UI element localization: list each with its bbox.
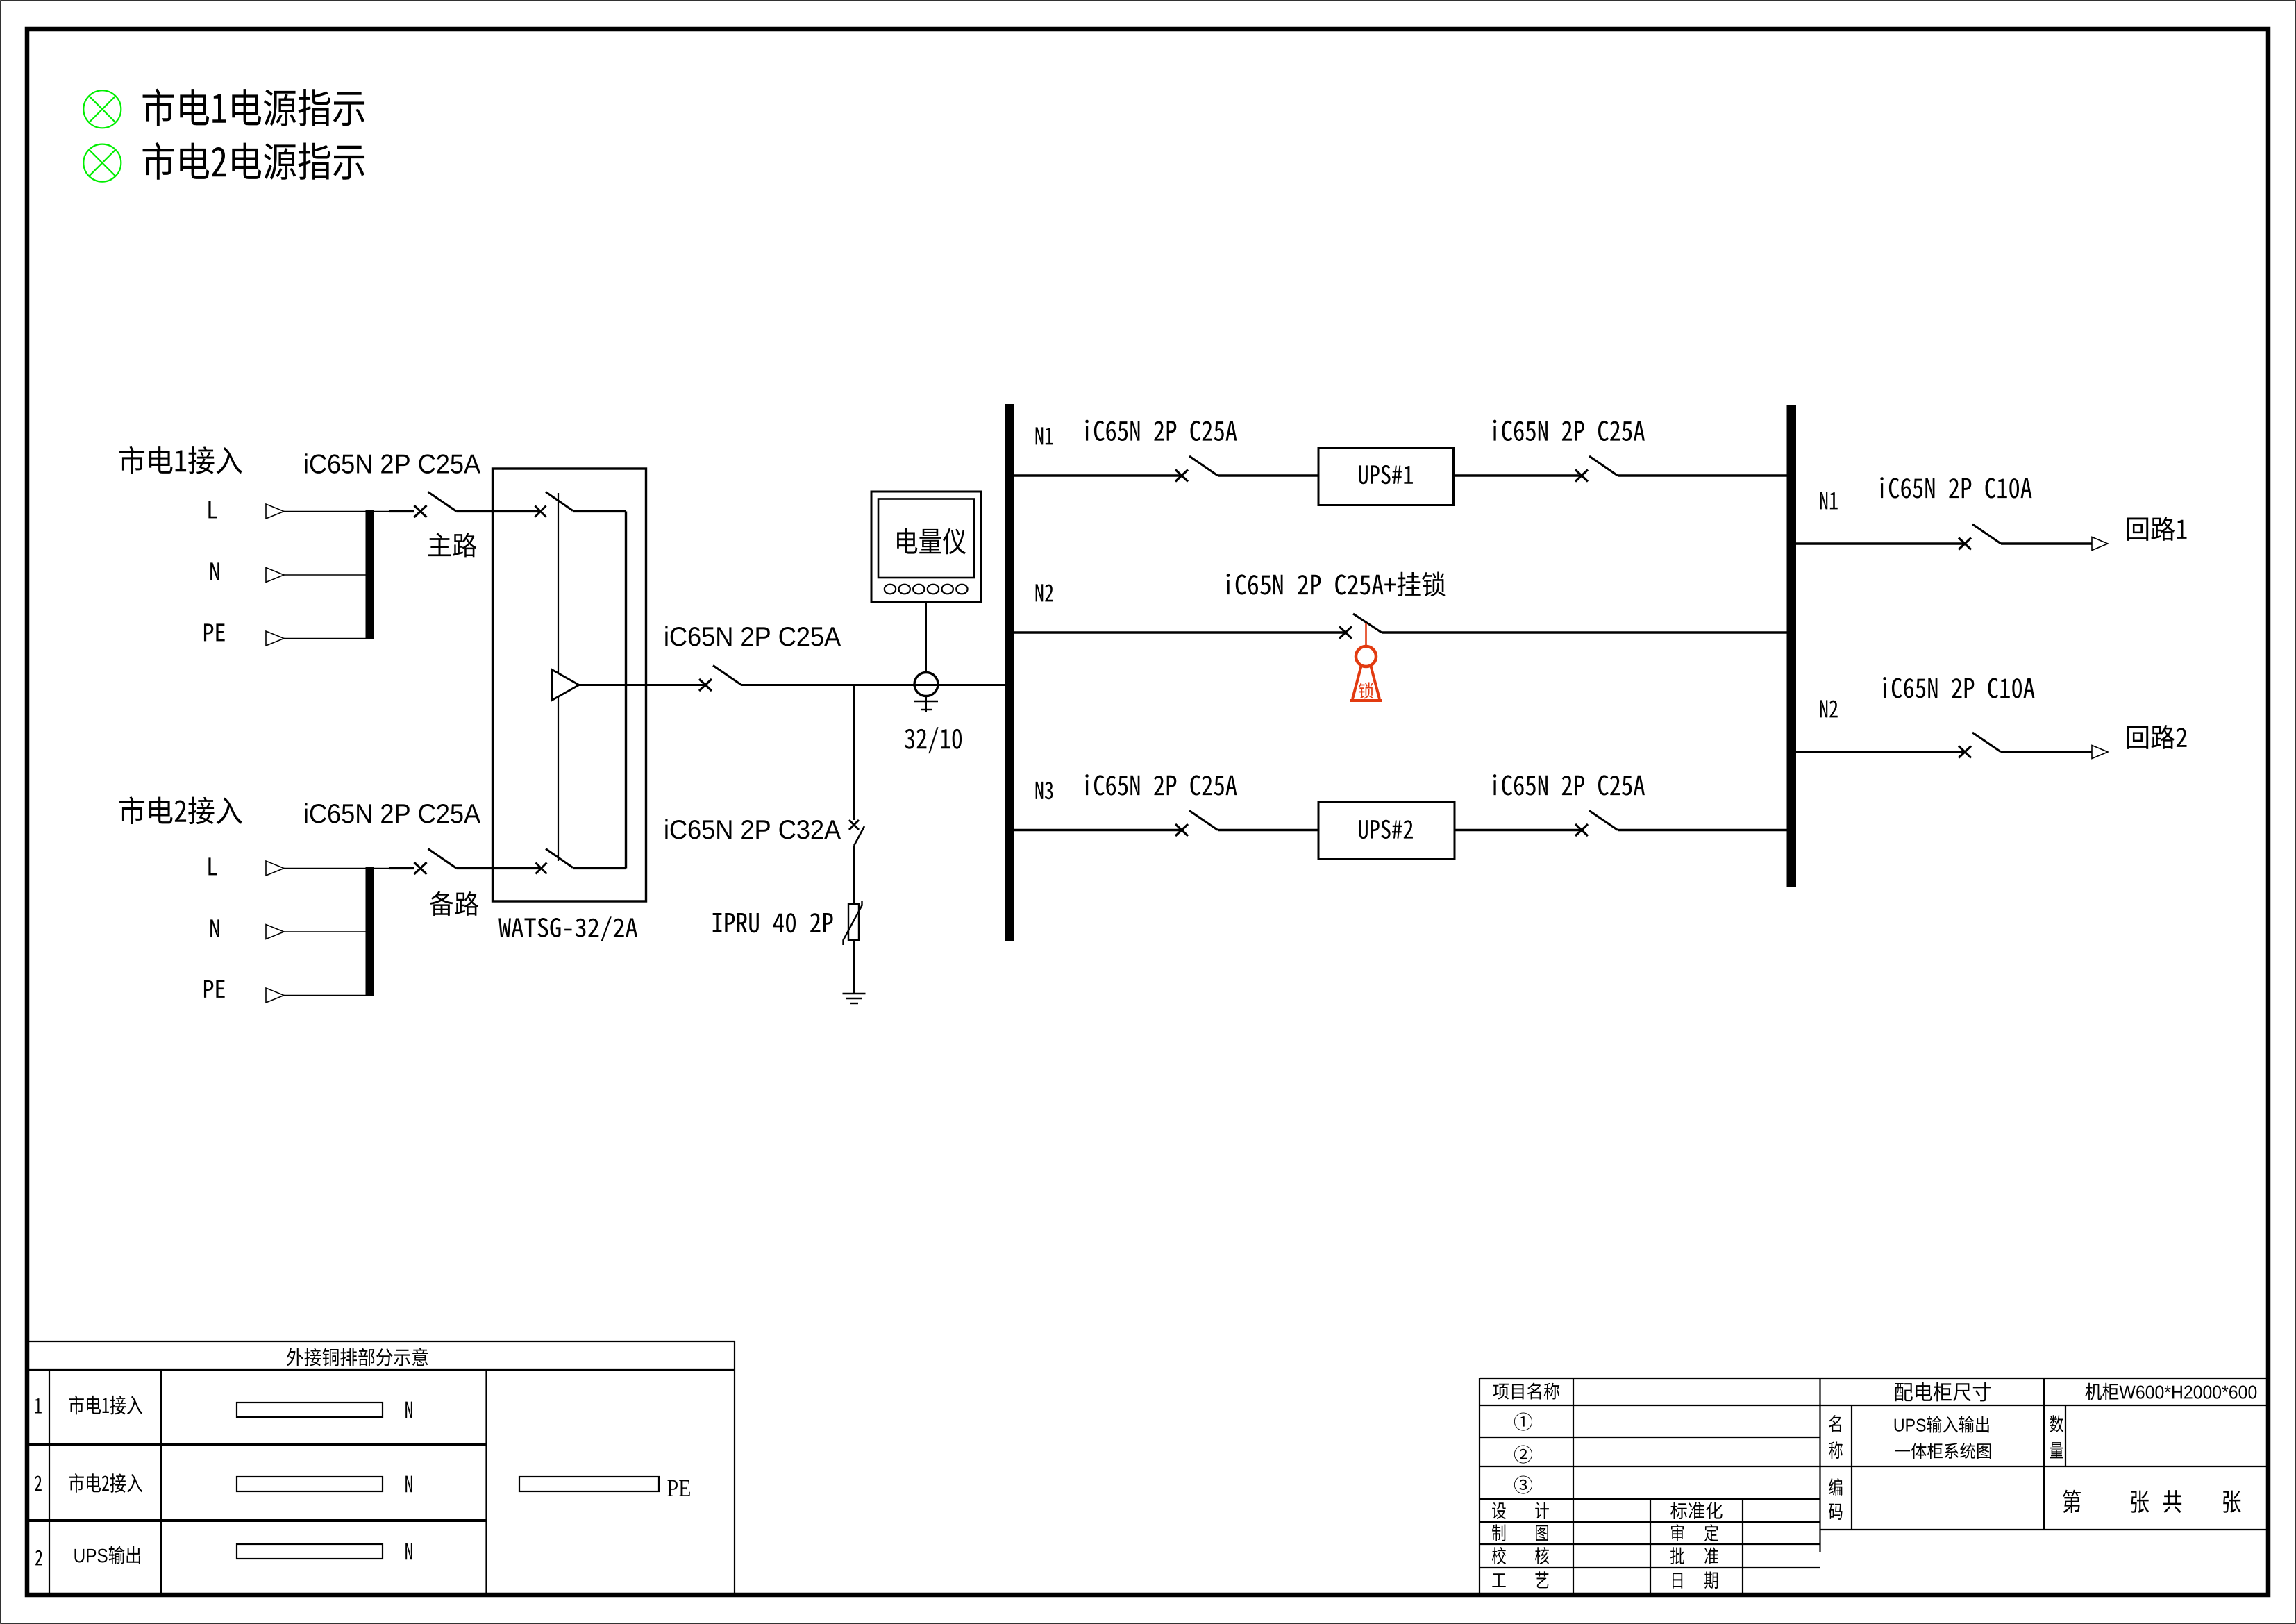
label iC65N 2P C32A (QF4) <box>665 819 841 839</box>
label 第 张 共 张 <box>2063 1490 2241 1513</box>
table row 3: UPS输出 N bar <box>35 1546 140 1566</box>
wire QF9 to right bus <box>1618 829 1787 831</box>
padlock body (red) with 锁 <box>1352 667 1380 700</box>
terminal arrow L mains2 <box>266 861 284 876</box>
node bar mains2 (terminal bus) <box>366 867 374 996</box>
label ② <box>1514 1446 1532 1464</box>
terminal arrow N mains1 <box>266 568 284 583</box>
ATS common rail left <box>558 493 559 861</box>
wire L mains2 <box>284 868 366 869</box>
wire bus to QF8 <box>1014 829 1182 831</box>
terminal arrow L mains1 <box>266 504 284 519</box>
ground (earth) symbol <box>843 993 866 994</box>
breaker QF4 iC65N 2P C32A (SPD branch, vertical) <box>849 820 859 830</box>
meter display window <box>878 499 974 578</box>
label IPRU 40 2P (FV1) <box>713 913 833 932</box>
label 名称 (vertical) <box>1829 1415 1843 1459</box>
wire ATS main to common rail <box>573 510 626 512</box>
breaker QF10 iC65N 2P C10A (circuit 1) <box>1959 524 2001 550</box>
node N2 label (right bus) <box>1820 700 1838 717</box>
label 市电1电源指示 <box>143 89 365 126</box>
labels 设计/制图/校核/工艺 <box>1492 1502 1549 1588</box>
node N1 label (right bus) <box>1820 492 1838 509</box>
UPS U3 (UPS#2) <box>1318 802 1455 860</box>
wire meter to CT <box>925 602 927 673</box>
label 电量仪 <box>897 528 966 555</box>
padlock shackle (red circle) <box>1356 646 1376 667</box>
node N2 label (left bus) <box>1036 584 1053 601</box>
label 数量 (vertical) <box>2050 1415 2063 1458</box>
label 32/10 <box>905 727 962 753</box>
wire ATS output to breaker QF3 <box>579 684 705 686</box>
power meter PJ1 电量仪 (enclosure) <box>871 492 981 602</box>
label 机柜W600*H2000*600 <box>2085 1383 2256 1400</box>
wire QF11 to outlet arrow <box>2001 751 2092 753</box>
label iC65N 2P C25A (QF2) <box>305 803 480 823</box>
breaker QF9 iC65N 2P C25A (UPS#2 output) <box>1575 811 1618 837</box>
breaker QF11 iC65N 2P C10A (circuit 2) <box>1959 733 2001 758</box>
bus B1 (UPS input busbar) <box>1005 404 1014 941</box>
wire mains1 to breaker QF1 <box>374 511 391 512</box>
ATS main contact blade <box>546 492 573 511</box>
wire UPS#2 to QF9 <box>1455 829 1582 831</box>
label N terminal (mains1) <box>210 562 219 580</box>
label 编码 (vertical) <box>1829 1478 1843 1520</box>
indicator lamp HL2 (mains 2 power indication) <box>83 144 121 182</box>
wire N mains2 <box>284 931 366 932</box>
label 回路1 <box>2127 517 2187 541</box>
label 回路2 <box>2127 725 2187 749</box>
label 市电1接入 <box>119 446 242 474</box>
wire QF1 to ATS main contact <box>457 510 542 512</box>
label UPS#2 <box>1359 820 1413 839</box>
label 市电2电源指示 <box>143 142 365 180</box>
label iC65N 2P C25A+挂锁 (QF7) <box>1227 572 1446 597</box>
CT TA1 current transformer 32/10 <box>914 673 938 696</box>
title block grid <box>1480 1378 2266 1593</box>
node J1 junction SPD tap <box>853 685 855 821</box>
wire QF5 to UPS#1 <box>1218 474 1318 476</box>
label 市电2接入 <box>119 796 242 824</box>
wire QF10 to outlet arrow <box>2001 542 2092 544</box>
wire bus to QF11 <box>1796 751 1965 753</box>
breaker QF1 iC65N 2P C25A (主路) <box>414 492 457 518</box>
breaker QF7 iC65N 2P C25A with padlock (bypass) <box>1339 627 1352 639</box>
label iC65N 2P C25A (QF3) <box>665 626 841 646</box>
label iC65N 2P C25A (QF6) <box>1493 420 1645 441</box>
label 外接铜排部分示意 <box>287 1348 428 1366</box>
label L terminal (mains1) <box>208 501 217 518</box>
label iC65N 2P C25A (QF8) <box>1085 774 1237 795</box>
wire PE mains1 <box>284 638 366 639</box>
node N3 label (left bus) <box>1036 782 1053 799</box>
terminal arrow N mains2 <box>266 925 284 939</box>
wire bus to QF7 <box>1014 631 1346 633</box>
label PE terminal (mains1) <box>204 623 225 641</box>
wire QF2 to ATS standby contact <box>457 867 542 869</box>
wire QF7 to right bus <box>1382 631 1787 633</box>
breaker QF2 iC65N 2P C25A (备路) <box>414 849 457 875</box>
label iC65N 2P C10A (QF10) <box>1880 477 2031 498</box>
wire PE mains2 <box>284 995 366 996</box>
ATS standby contact blade <box>546 849 573 868</box>
wire QF3 to left bus via CT <box>741 684 1005 686</box>
ATS output triangle <box>552 670 579 701</box>
wire ATS standby to common rail <box>573 867 626 869</box>
terminal arrow PE mains2 <box>266 988 284 1003</box>
label iC65N 2P C25A (QF1) <box>305 453 480 474</box>
label 配电柜尺寸 <box>1895 1382 1991 1402</box>
padlock hanger (red) <box>1365 623 1367 646</box>
label ③ <box>1514 1476 1532 1494</box>
table row 1: 市电1接入 N bar <box>35 1396 143 1415</box>
ATS U1 WATSG-32/2A enclosure <box>493 469 646 901</box>
wire mains2 to breaker QF2 <box>374 868 391 869</box>
ATS standby contact X <box>536 863 547 874</box>
label iC65N 2P C25A (QF5) <box>1085 420 1237 441</box>
ATS main contact X <box>535 506 546 517</box>
meter buttons <box>885 585 968 594</box>
label UPS#1 <box>1359 465 1413 484</box>
UPS U2 (UPS#1) <box>1318 449 1454 505</box>
label ① <box>1514 1413 1532 1431</box>
wire QF8 to UPS#2 <box>1218 829 1318 831</box>
label 主路 <box>428 533 476 557</box>
breaker QF5 iC65N 2P C25A (UPS#1 input) <box>1175 456 1218 482</box>
labels 标准化/审定/批准/日期 <box>1670 1502 1723 1589</box>
wire SPD to ground <box>853 940 855 994</box>
label iC65N 2P C10A (QF11) <box>1883 677 2034 698</box>
table row 2: 市电2接入 N bar <box>35 1473 142 1493</box>
wire L mains1 <box>284 511 366 512</box>
label L terminal (mains2) <box>208 857 217 875</box>
outlet arrow circuit 1 <box>2092 537 2108 551</box>
wire UPS#1 to QF6 <box>1454 474 1582 476</box>
PE copper bar <box>519 1477 659 1491</box>
indicator lamp HL1 (mains 1 power indication) <box>83 90 121 128</box>
label 备路 <box>430 891 478 916</box>
node N1 label (left bus) <box>1036 427 1053 444</box>
CT secondary lead <box>925 696 927 713</box>
wire QF4 to SPD FV1 <box>853 846 855 904</box>
node bar mains1 (terminal bus) <box>366 510 374 639</box>
breaker QF3 iC65N 2P C25A (main output) <box>699 666 741 692</box>
wire QF6 to right bus <box>1618 474 1787 476</box>
bus B2 (UPS output busbar) <box>1787 405 1797 887</box>
SPD FV1 IPRU 40 2P (surge arrester) <box>848 904 859 940</box>
label WATSG-32/2A <box>498 916 637 941</box>
outlet arrow circuit 2 <box>2092 746 2108 759</box>
wire N mains1 <box>284 574 366 576</box>
breaker QF8 iC65N 2P C25A (UPS#2 input) <box>1175 811 1218 837</box>
breaker QF6 iC65N 2P C25A (UPS#1 output) <box>1575 456 1618 482</box>
ATS common rail right <box>625 512 627 869</box>
wire bus to QF5 <box>1014 474 1182 476</box>
label iC65N 2P C25A (QF9) <box>1493 774 1645 795</box>
label PE terminal (mains2) <box>204 980 225 998</box>
copper bar table <box>29 1341 735 1593</box>
label UPS输入输出 一体柜系统图 <box>1895 1416 1991 1459</box>
wire bus to QF10 <box>1796 542 1965 544</box>
label N terminal (mains2) <box>210 919 219 937</box>
label 项目名称 <box>1493 1383 1559 1400</box>
terminal arrow PE mains1 <box>266 631 284 646</box>
